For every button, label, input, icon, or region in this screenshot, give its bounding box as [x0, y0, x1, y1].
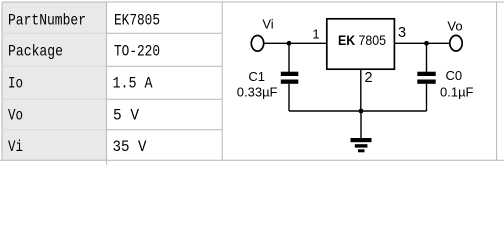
wire Vi to U1 pin 1: [264, 42, 327, 44]
pin 1 label: [312, 27, 319, 42]
svg-text:Package: Package: [8, 43, 63, 61]
terminal Vo: [450, 35, 462, 51]
svg-text:Vo: Vo: [447, 18, 462, 33]
pin 3 label: [398, 25, 406, 41]
wire ground bus: [289, 110, 427, 112]
svg-text:1: 1: [312, 27, 319, 42]
label Vo: [447, 18, 462, 33]
svg-text:2: 2: [365, 70, 373, 86]
svg-text:Vi: Vi: [8, 138, 23, 156]
junction node ground: [359, 109, 364, 114]
regulator U1 EK 7805: [327, 19, 395, 69]
svg-text:EK7805: EK7805: [114, 12, 160, 30]
svg-text:PartNumber: PartNumber: [8, 12, 86, 30]
label Vi: [262, 16, 273, 31]
svg-text:0.33µF: 0.33µF: [237, 85, 278, 100]
svg-text:5 V: 5 V: [113, 107, 139, 125]
svg-text:0.1µF: 0.1µF: [440, 85, 474, 100]
svg-text:C1: C1: [248, 69, 265, 84]
svg-text:EK 7805: EK 7805: [338, 32, 386, 48]
value 0.33uF: [237, 85, 278, 100]
terminal Vi: [251, 36, 263, 52]
pin 2 wire: [360, 69, 362, 111]
svg-text:Vo: Vo: [8, 107, 23, 125]
svg-text:C0: C0: [446, 68, 463, 83]
junction node output: [424, 41, 429, 46]
label C1: [248, 69, 265, 84]
ground: [351, 111, 372, 152]
svg-text:Io: Io: [8, 75, 23, 93]
svg-text:35 V: 35 V: [113, 138, 147, 156]
svg-text:3: 3: [398, 25, 406, 41]
label C0: [446, 68, 463, 83]
capacitor C1: [281, 43, 299, 111]
wire U1 pin 3 to Vo: [394, 42, 449, 44]
svg-text:TO-220: TO-220: [114, 43, 160, 61]
label EK 7805: [338, 32, 386, 48]
junction node input: [287, 41, 292, 46]
pin 2 label: [365, 70, 373, 86]
value 0.1uF: [440, 85, 474, 100]
capacitor C0: [417, 43, 435, 111]
svg-text:Vi: Vi: [262, 16, 273, 31]
svg-text:1.5 A: 1.5 A: [113, 75, 153, 93]
